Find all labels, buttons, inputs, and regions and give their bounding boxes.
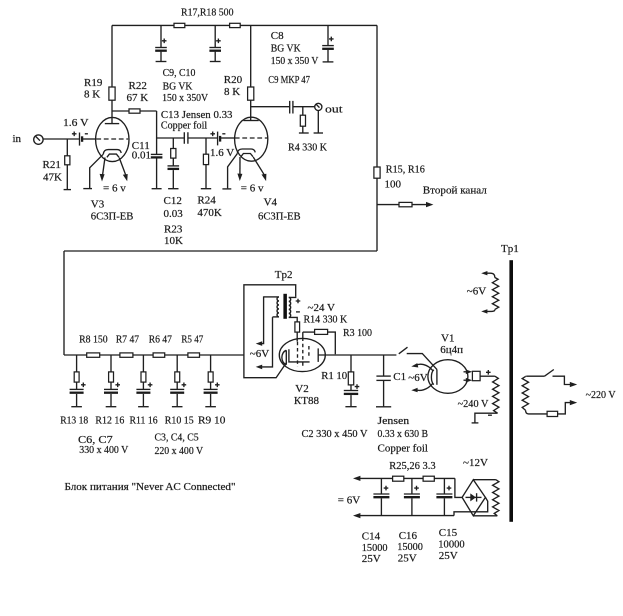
capacitor C9	[155, 25, 167, 61]
V4 cathode lead to ground	[228, 154, 238, 189]
svg-text:C14: C14	[362, 530, 381, 542]
label R24 470K	[197, 194, 222, 219]
label V1 6ts4p	[440, 332, 463, 355]
terminal in	[34, 135, 43, 144]
svg-text:6С3П-ЕВ: 6С3П-ЕВ	[91, 210, 134, 222]
resistor R7	[120, 353, 133, 357]
label Jensen 0.33x630B Copper foil	[378, 415, 429, 454]
label R21 47K	[43, 159, 63, 183]
svg-text:R4 330 K: R4 330 K	[288, 142, 327, 154]
V4 cathode	[237, 149, 255, 154]
V2 filament arc	[282, 350, 286, 364]
resistor R15,R16 on right vertical	[374, 167, 380, 178]
wire heater DC bottom rail with arrow	[353, 513, 454, 518]
label C13 Jensen 0.33 Copper foil	[161, 109, 233, 132]
switch blade 220V	[545, 370, 554, 377]
svg-text:C8: C8	[271, 30, 284, 42]
svg-text:R21: R21	[43, 159, 61, 171]
resistor R22 (horizontal)	[112, 109, 157, 113]
switch blade	[399, 347, 408, 354]
svg-text:Tp1: Tp1	[501, 243, 519, 255]
wire primary bottom through fuse	[526, 410, 548, 414]
wire top rail jog to bridge	[455, 478, 462, 497]
V3 plate bar	[105, 123, 119, 125]
label C9, C10 BG VK 150x350V	[162, 67, 208, 104]
capacitor C8	[322, 25, 334, 62]
minus sign 240V	[488, 414, 492, 416]
V2 cathode bar	[289, 349, 310, 362]
label V4 6C3P-EB	[258, 197, 301, 223]
RC branch R9/C	[204, 355, 220, 407]
wire bridge DC minus jog	[454, 497, 488, 515]
wire left winding bottom	[273, 316, 279, 318]
V1 heater lower curved arrow	[411, 383, 433, 392]
wire anode box to HV winding	[480, 375, 495, 377]
terminal out	[315, 103, 322, 110]
resistor R21	[64, 139, 71, 190]
capacitor C11	[151, 138, 163, 189]
minus sign 24V	[296, 311, 300, 313]
ground V4 cathode	[222, 188, 231, 190]
wire right winding bottom to R14	[289, 317, 297, 322]
svg-text:~6V: ~6V	[467, 286, 486, 298]
svg-text:25V: 25V	[362, 553, 381, 565]
label C11 0.01	[132, 140, 151, 162]
resistor R26	[423, 476, 434, 481]
svg-text:R22: R22	[129, 80, 147, 92]
capacitor C13 (series)	[184, 132, 188, 143]
svg-text:C9, C10: C9, C10	[163, 67, 196, 79]
wire R22 down to coupling node	[156, 111, 158, 138]
wire 6V winding bottom arrow	[481, 309, 495, 313]
battery 1.6V (V3 grid bias)	[72, 132, 88, 146]
svg-text:R14 330 K: R14 330 K	[304, 313, 348, 325]
wire bottom horizontal of upper box	[64, 250, 377, 252]
resistor R14	[295, 322, 300, 342]
Tp1 220V primary winding (zigzag)	[522, 376, 528, 410]
svg-text:~24 V: ~24 V	[308, 302, 336, 314]
wire bridge AC bottom	[473, 515, 497, 517]
wire V2 plate to switch	[318, 354, 396, 356]
rectifier V1 envelope	[428, 360, 468, 394]
svg-text:V2: V2	[295, 383, 308, 395]
wire heater DC top rail with arrow	[353, 476, 455, 481]
V4 heater arc	[241, 154, 253, 157]
Tp1 core	[509, 260, 513, 522]
svg-text:220 x 400 V: 220 x 400 V	[155, 445, 204, 457]
svg-text:25V: 25V	[439, 550, 458, 562]
svg-text:BG VK: BG VK	[271, 43, 301, 55]
label V2 KT88	[294, 383, 320, 407]
bridge rectifier diamond	[462, 480, 485, 516]
svg-text:Jensen: Jensen	[378, 415, 410, 427]
svg-text:C2 330 x 450 V: C2 330 x 450 V	[302, 428, 368, 440]
V2 grid 2 dashed	[302, 332, 304, 337]
triode V4 envelope	[235, 117, 268, 161]
ground V3 cathode	[83, 188, 92, 190]
label R22 67 K	[127, 80, 149, 104]
svg-text:R13 18: R13 18	[60, 415, 88, 427]
resistor R18	[230, 23, 241, 27]
svg-text:0.03: 0.03	[164, 208, 184, 220]
svg-text:1.6 V: 1.6 V	[210, 147, 234, 159]
svg-text:= 6V: = 6V	[338, 494, 360, 506]
V4 heater lead right with arrow	[253, 157, 266, 181]
V3 heater arc	[107, 154, 119, 157]
wire switch to V1	[407, 354, 437, 370]
svg-text:R12 16: R12 16	[95, 415, 124, 427]
svg-text:330 x 400 V: 330 x 400 V	[79, 444, 128, 456]
labels R8 150 R7 47 R6 47 R5 47	[79, 334, 204, 346]
wire left winding top	[264, 296, 279, 298]
wire heater feed lower with arrow	[256, 317, 273, 369]
ground at out terminal	[314, 111, 323, 134]
Tp1 6V winding (zigzag)	[492, 277, 498, 309]
plus sign 24V	[296, 299, 301, 304]
svg-text:R23: R23	[164, 224, 183, 236]
wire battery to V4 grid	[221, 137, 235, 139]
svg-text:~12V: ~12V	[463, 457, 488, 469]
svg-text:R19: R19	[84, 77, 103, 89]
label R19 8 K	[84, 77, 103, 101]
svg-text:C9 MKP 47: C9 MKP 47	[268, 74, 310, 86]
svg-text:R10 15: R10 15	[165, 415, 194, 427]
svg-text:67 K: 67 K	[127, 92, 149, 104]
label C8 BG VK 150 x 350 V	[271, 30, 319, 67]
Tp2 enclosure outline	[244, 285, 296, 378]
resistor R6	[153, 353, 165, 357]
wire bridge AC top	[473, 479, 496, 481]
triode V3 envelope	[96, 117, 129, 161]
wire in to battery	[43, 138, 79, 140]
svg-text:C3, C4, C5: C3, C4, C5	[155, 431, 200, 443]
label C3, C4, C5 220 x 400 V	[155, 431, 204, 457]
svg-text:~6V: ~6V	[408, 372, 427, 384]
wire 220V upper with arrow	[553, 376, 578, 387]
svg-text:150 x 350V: 150 x 350V	[162, 92, 208, 104]
RC branch R12/C	[104, 355, 120, 407]
Tp2 right winding	[289, 297, 291, 317]
label R20 8 K	[224, 74, 243, 98]
ground tick HV minus	[472, 422, 479, 424]
svg-text:R9 10: R9 10	[198, 415, 226, 427]
V3 heater lead left with arrow	[100, 158, 105, 182]
svg-text:C12: C12	[164, 195, 182, 207]
svg-text:C1: C1	[393, 371, 406, 383]
plus sign 240V	[486, 370, 491, 375]
V3 grid (dashed)	[96, 138, 128, 140]
svg-text:R7 47: R7 47	[116, 334, 140, 346]
svg-text:= 6 v: = 6 v	[241, 182, 264, 194]
Tp2 left winding	[277, 297, 279, 317]
V3 heater lead right with arrow	[119, 158, 128, 182]
svg-text:КТ88: КТ88	[294, 395, 320, 407]
resistor R20	[248, 25, 254, 120]
resistor R4	[299, 107, 309, 133]
capacitor C14	[373, 478, 389, 515]
fuse 220V	[547, 411, 558, 416]
wire primary top to switch	[526, 375, 545, 377]
V1 heater upper curved arrow	[411, 363, 433, 371]
resistor R8	[87, 353, 100, 357]
V3 cathode	[103, 150, 121, 155]
V1 anode arrows	[464, 370, 473, 383]
svg-text:150 x 350 V: 150 x 350 V	[271, 55, 319, 67]
svg-text:= 6 v: = 6 v	[103, 182, 126, 194]
svg-text:1.6 V: 1.6 V	[63, 117, 89, 129]
capacitor C9 MKP 47 (coupling)	[290, 101, 293, 114]
labels C15 10000 25V	[438, 527, 465, 562]
pentode V2 envelope	[279, 338, 325, 371]
wire C13 to battery	[188, 137, 217, 139]
capacitor C1 branch	[376, 355, 391, 407]
labels R13 18 R12 16 R11 16 R10 15 R9 10	[60, 415, 226, 427]
V1 filament arc	[431, 370, 433, 385]
V2 plate bar	[317, 348, 319, 362]
svg-text:0.01: 0.01	[132, 150, 151, 162]
Tp1 HV winding 240V (zigzag)	[493, 376, 499, 413]
label R15, R16 100	[385, 163, 426, 190]
label V3 6C3P-EB	[91, 198, 134, 222]
V4 grid (dashed)	[235, 137, 268, 139]
svg-text:10K: 10K	[164, 235, 183, 247]
svg-text:R15, R16: R15, R16	[386, 163, 425, 175]
svg-text:in: in	[13, 133, 22, 145]
svg-text:47K: 47K	[43, 171, 62, 183]
wire fuse to lower arrow	[558, 400, 578, 414]
wire battery to V3 grid	[83, 138, 97, 140]
svg-text:C15: C15	[439, 527, 458, 539]
svg-text:V4: V4	[264, 197, 278, 209]
resistor second channel	[399, 202, 412, 206]
bridge diode symbol	[466, 493, 482, 501]
V2 grid 3 dashed	[308, 346, 310, 357]
svg-text:25V: 25V	[398, 552, 417, 564]
svg-text:R3 100: R3 100	[343, 327, 372, 339]
svg-text:6ц4п: 6ц4п	[440, 344, 463, 356]
resistor R5	[188, 353, 200, 357]
resistor R25	[393, 476, 404, 481]
wire V4 plate node to output cap	[251, 106, 290, 108]
svg-text:~220 V: ~220 V	[586, 389, 616, 401]
svg-text:R24: R24	[197, 194, 216, 206]
RC branch R11/C	[136, 355, 152, 407]
wire right vertical of upper box	[376, 25, 378, 251]
RC branch R10/C	[170, 355, 186, 407]
capacitor C10	[209, 25, 221, 61]
svg-text:100: 100	[385, 178, 402, 190]
svg-text:R20: R20	[224, 74, 243, 86]
resistor R19	[109, 25, 115, 123]
svg-text:R25,26 3.3: R25,26 3.3	[389, 460, 436, 472]
wire coupling node to C13	[157, 137, 184, 139]
wire to arrow	[412, 204, 429, 206]
resistor R3 loop	[303, 329, 336, 354]
svg-text:Copper foil: Copper foil	[378, 442, 429, 454]
labels C16 15000 25V	[397, 530, 423, 565]
svg-text:R11 16: R11 16	[130, 415, 159, 427]
V1 anode cap box	[472, 371, 480, 380]
svg-text:6С3П-ЕВ: 6С3П-ЕВ	[258, 210, 301, 222]
svg-text:~6V: ~6V	[250, 348, 269, 360]
svg-text:BG VK: BG VK	[163, 81, 193, 93]
V4 plate bar	[243, 120, 258, 122]
svg-text:Copper foil: Copper foil	[161, 119, 207, 131]
svg-text:0.33 x 630 B: 0.33 x 630 B	[378, 428, 429, 440]
wire lower rail	[64, 354, 244, 356]
wire second-channel branch	[377, 204, 399, 206]
svg-text:8 K: 8 K	[224, 86, 240, 98]
svg-text:Блок питания "Never AC Connect: Блок питания "Never AC Connected"	[65, 481, 236, 493]
wire HV winding bottom to minus	[475, 413, 498, 422]
wire 6V winding top arrow	[481, 271, 495, 277]
svg-text:R17,R18 500: R17,R18 500	[181, 7, 234, 19]
labels C12 0.03 R23 10K	[164, 195, 184, 247]
label C6, C7 330 x 400 V	[78, 434, 128, 456]
wire heater feed upper with arrow	[256, 296, 264, 346]
resistor R1 and capacitor C2 branch	[344, 355, 360, 407]
svg-text:out: out	[325, 103, 343, 115]
svg-text:Tp2: Tp2	[275, 269, 293, 281]
capacitor C15	[436, 478, 452, 515]
resistor R24	[201, 138, 211, 189]
arrow second channel	[426, 202, 433, 207]
RC branch R13/C	[70, 355, 86, 407]
V1 cathode bar	[436, 369, 438, 384]
battery 1.6V (V4 grid bias)	[210, 132, 225, 146]
svg-text:R6 47: R6 47	[149, 334, 173, 346]
wire right winding top	[289, 296, 296, 297]
svg-text:10000: 10000	[438, 539, 465, 551]
labels C14 15000 25V	[362, 530, 388, 565]
svg-text:470K: 470K	[197, 207, 222, 219]
svg-text:8 K: 8 K	[84, 89, 100, 101]
resistor R17	[174, 23, 185, 27]
wire cap to out terminal	[293, 106, 315, 108]
svg-text:R1 10: R1 10	[321, 370, 347, 382]
svg-text:R8 150: R8 150	[79, 334, 108, 346]
svg-text:~240 V: ~240 V	[458, 398, 489, 410]
V3 cathode lead to ground	[90, 154, 104, 188]
Tp1 12V winding (zigzag)	[493, 480, 499, 516]
svg-text:15000: 15000	[397, 541, 423, 553]
V2 grid 1 dashed	[297, 342, 299, 367]
V4 heater lead left with arrow	[237, 157, 242, 181]
svg-text:V3: V3	[91, 198, 105, 210]
svg-text:Второй канал: Второй канал	[423, 185, 488, 197]
svg-text:V1: V1	[441, 332, 454, 344]
capacitor C12 + resistor R23 chain	[168, 138, 180, 189]
svg-text:R5 47: R5 47	[181, 334, 203, 346]
capacitor C16	[404, 478, 420, 515]
Tp2 core	[283, 294, 287, 319]
wire top B+ rail	[112, 24, 377, 26]
wire left vertical down to lower rail	[63, 251, 65, 355]
